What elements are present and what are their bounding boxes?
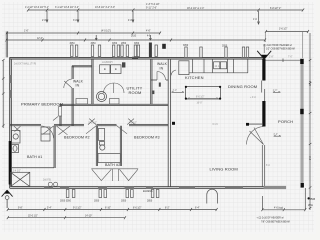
door swing fan lower right xyxy=(246,127,263,145)
tiny drop texts xyxy=(42,19,257,22)
in-wall window dashes bottom xyxy=(44,187,243,189)
window tags above top wall xyxy=(71,45,249,58)
svg-text:IN: IN xyxy=(76,84,80,88)
thin lower right wall with window xyxy=(262,145,264,187)
svg-text:2'-8": 2'-8" xyxy=(273,90,278,92)
svg-text:+ (2) 2x10 DF HEADER w/: + (2) 2x10 DF HEADER w/ xyxy=(257,216,285,219)
hall bedroom door xyxy=(53,107,62,121)
bedroom east closing wall to hall xyxy=(60,104,61,125)
floor drain circles xyxy=(48,182,58,186)
left wall xyxy=(10,57,12,188)
svg-text:2x10: 2x10 xyxy=(131,35,137,37)
left wall window dashes xyxy=(10,75,12,98)
svg-text:6'-10": 6'-10" xyxy=(105,207,111,209)
bottom dimension rows xyxy=(7,188,307,219)
svg-text:1'-3" 5'-0 1/2": 1'-3" 5'-0 1/2" xyxy=(146,4,160,6)
top dim ticks xyxy=(27,9,304,12)
svg-text:IN: IN xyxy=(160,66,164,70)
svg-text:ROOM: ROOM xyxy=(129,90,142,95)
svg-text:3'-0": 3'-0" xyxy=(173,90,178,92)
hall doors to bedrooms xyxy=(86,119,135,134)
bath1 door swing xyxy=(14,126,70,138)
svg-text:+ 4'-0: + 4'-0 xyxy=(250,97,256,99)
svg-text:3'-0": 3'-0" xyxy=(273,134,278,136)
bottom wall xyxy=(10,187,266,189)
svg-text:BEDROOM #2: BEDROOM #2 xyxy=(64,136,90,140)
svg-text:6'-8 1/2" 2": 6'-8 1/2" 2" xyxy=(270,8,281,10)
kitchen island xyxy=(186,87,221,100)
svg-text:13'-8 1/2" 4'-2" 3'-0": 13'-8 1/2" 4'-2" 3'-0" xyxy=(95,7,115,9)
svg-text:BATH #1: BATH #1 xyxy=(27,155,42,159)
entry door arch below wall xyxy=(207,189,218,203)
svg-text:5'-0 1/2": 5'-0 1/2" xyxy=(89,122,98,124)
top dimension line overall xyxy=(28,9,303,11)
svg-text:3'-0 1/2": 3'-0 1/2" xyxy=(129,122,138,124)
svg-text:4'-6": 4'-6" xyxy=(146,31,151,33)
walk-in closet 1 top wall xyxy=(72,66,92,67)
svg-text:BEDROOM #3: BEDROOM #3 xyxy=(134,136,160,140)
washer dryer xyxy=(100,65,121,74)
svg-text:PORCH: PORCH xyxy=(278,119,293,124)
svg-text:4'-0 (typ): 4'-0 (typ) xyxy=(274,207,283,210)
svg-text:6 1 6: 6 1 6 xyxy=(213,124,219,126)
svg-text:9'-8": 9'-8" xyxy=(18,207,23,209)
svg-text:15'-0 1/2": 15'-0 1/2" xyxy=(28,216,38,218)
closet fronts with bifold V doors xyxy=(91,169,138,181)
svg-text:8'-0 1/2": 8'-0 1/2" xyxy=(133,207,142,209)
rotated dim text right edge xyxy=(310,80,312,160)
hall door jamb marks xyxy=(159,83,161,87)
svg-text:LIVING ROOM: LIVING ROOM xyxy=(210,167,238,172)
svg-text:3050 3050: 3050 3050 xyxy=(60,201,72,203)
svg-text:3050: 3050 xyxy=(121,201,127,203)
svg-text:9'-11" 2'-6": 9'-11" 2'-6" xyxy=(146,7,157,9)
svg-text:3050: 3050 xyxy=(94,201,100,203)
right vertical dim line xyxy=(309,33,312,210)
dim line second tier xyxy=(7,32,160,34)
svg-text:2x6 EXT WALL (TYP): 2x6 EXT WALL (TYP) xyxy=(14,62,36,65)
svg-text:12 12: 12 12 xyxy=(215,66,221,68)
porch steps bar xyxy=(264,186,287,189)
svg-text:12'-2: 12'-2 xyxy=(310,80,312,86)
svg-text:(2) 2x10 HF/DF HEADER w/: (2) 2x10 HF/DF HEADER w/ xyxy=(263,44,292,47)
svg-text:BM: BM xyxy=(311,197,316,201)
svg-text:16'-0": 16'-0" xyxy=(197,103,203,105)
svg-text:3'-1 1/2" 10'-8 1/2" 4'-2": 3'-1 1/2" 10'-8 1/2" 4'-2" xyxy=(55,7,79,9)
svg-text:7'-0": 7'-0" xyxy=(288,57,293,59)
svg-text:6'-4": 6'-4" xyxy=(195,207,200,209)
small dim 2'-8 near porch door xyxy=(273,91,281,136)
svg-text:WA: WA xyxy=(308,203,313,207)
svg-text:7/8" OSB BETWEEN BEAM: 7/8" OSB BETWEEN BEAM xyxy=(261,221,290,224)
svg-text:5'-4": 5'-4" xyxy=(47,207,52,209)
svg-text:EGRESS: EGRESS xyxy=(143,191,153,193)
header callout top right xyxy=(263,44,295,51)
window tags below bottom wall xyxy=(66,190,159,198)
big black arrow top right xyxy=(261,55,268,60)
walk-in 1 west wall xyxy=(72,66,73,126)
utility west wall xyxy=(92,59,93,104)
svg-text:2'-8": 2'-8" xyxy=(269,57,274,59)
svg-text:(4'-0 1/2"): (4'-0 1/2") xyxy=(101,31,111,33)
svg-text:1'-2 1/2" 10'-6 1/2" 5'-1": 1'-2 1/2" 10'-6 1/2" 5'-1" xyxy=(25,7,49,9)
svg-text:1'-4 1/2": 1'-4 1/2" xyxy=(13,170,22,172)
svg-text:2850: 2850 xyxy=(147,201,153,203)
kitchen / bedroom3 west wall xyxy=(168,59,170,187)
porch dim extension lines xyxy=(265,32,302,59)
svg-text:1/2" OSB BETWEEN BEAM: 1/2" OSB BETWEEN BEAM xyxy=(266,48,295,51)
left extension double line xyxy=(6,32,7,58)
tall dark window tag xyxy=(149,43,152,58)
porch posts xyxy=(300,59,304,64)
tiny dimension text top row xyxy=(25,4,281,10)
window tag cluster texts above wall xyxy=(70,43,228,48)
svg-text:8'-2": 8'-2" xyxy=(165,207,170,209)
slider door panels in right wall xyxy=(262,81,265,102)
svg-text:9'-2 1/2": 9'-2 1/2" xyxy=(73,207,82,209)
utility / hall top wall xyxy=(60,104,168,105)
svg-text:3'-6 1/2": 3'-6 1/2" xyxy=(279,28,288,30)
svg-text:14'-10": 14'-10" xyxy=(85,216,92,218)
top wall xyxy=(10,57,265,59)
water heater xyxy=(97,92,107,102)
left vertical dim line xyxy=(2,59,5,128)
mid wall between halls/bedrooms xyxy=(10,125,169,126)
svg-text:2x6 F.B.: 2x6 F.B. xyxy=(43,180,52,182)
svg-text:LAUNDRY: LAUNDRY xyxy=(102,61,113,64)
walk-in base cabinet xyxy=(76,99,119,105)
walk-in1 door swing xyxy=(64,79,72,88)
svg-text:PRIMARY BEDROOM: PRIMARY BEDROOM xyxy=(21,101,63,106)
svg-text:DINING ROOM: DINING ROOM xyxy=(228,84,257,89)
svg-text:BATH #2: BATH #2 xyxy=(105,163,120,167)
extension drops from top dim xyxy=(47,11,259,24)
svg-text:12'-0": 12'-0" xyxy=(37,38,43,40)
pantry door arc xyxy=(157,70,176,80)
beam posts xyxy=(172,122,175,125)
dim line third tier xyxy=(6,39,265,41)
svg-text:KITCHEN: KITCHEN xyxy=(185,75,204,80)
porch top dim line xyxy=(265,30,309,33)
top wall window dashes xyxy=(71,57,249,59)
dark tag left of kitchen xyxy=(162,44,166,49)
right edge legend xyxy=(308,197,310,199)
pantry bottom wall xyxy=(151,79,169,81)
pantry west wall xyxy=(151,59,152,104)
svg-text:1'-6": 1'-6" xyxy=(24,31,29,33)
black plumbing wall segment on left wall xyxy=(9,141,12,185)
dark blob right of dryer xyxy=(122,62,125,67)
tub with X xyxy=(11,172,30,186)
black arrow bottom left xyxy=(4,190,9,194)
utility double door arcs xyxy=(104,83,125,93)
svg-text:18'-2 1/2" w 1'-4": 18'-2 1/2" w 1'-4" xyxy=(187,8,204,10)
